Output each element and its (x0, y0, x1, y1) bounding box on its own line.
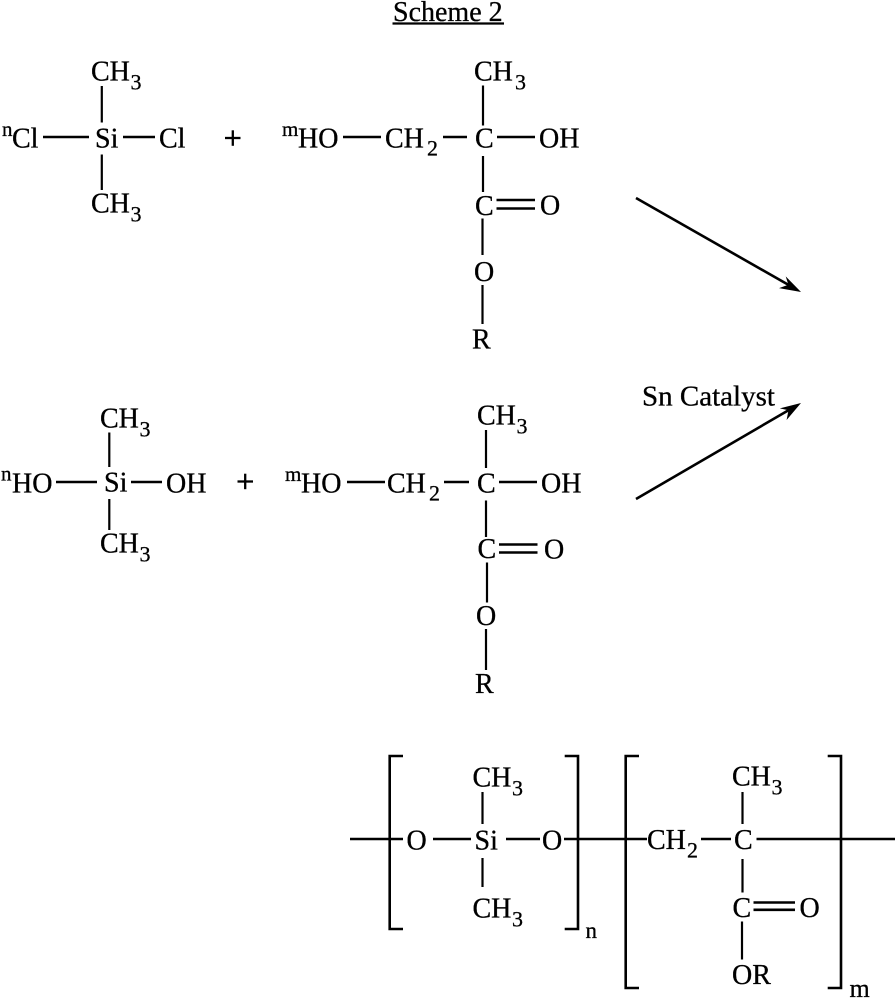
bracket right of n-block (565, 756, 578, 929)
svg-text:CH: CH (473, 894, 512, 925)
reaction arrow 1 (down-right) (636, 198, 801, 292)
label CH3 (above C, polymer) (732, 762, 783, 800)
svg-text:Si: Si (104, 468, 128, 499)
svg-text:OH: OH (541, 469, 581, 500)
bond CH2-C (row 2) (444, 481, 469, 483)
svg-text:O: O (474, 257, 494, 288)
svg-text:C: C (475, 124, 494, 155)
svg-text:OH: OH (166, 469, 206, 500)
bond C-C(carbonyl) vertical (polymer) (741, 859, 743, 893)
polymer backbone middle segment (564, 838, 647, 841)
bond Cl-Si (43, 136, 89, 138)
bracket left of m-block (626, 756, 639, 988)
svg-text:3: 3 (772, 775, 783, 800)
bond CH3-C vertical (482, 86, 484, 126)
svg-text:CH: CH (474, 57, 513, 88)
svg-text:m: m (850, 974, 870, 999)
title Scheme 2 (393, 0, 505, 28)
svg-text:CH: CH (732, 762, 771, 793)
svg-text:Cl: Cl (159, 124, 186, 155)
bond C-O vertical (481, 219, 483, 256)
bracket left of n-block (390, 756, 403, 929)
bond C-OH (497, 136, 535, 138)
svg-text:3: 3 (512, 907, 523, 932)
bond HO-CH2 (343, 136, 381, 138)
label CH3 (top of Si(OH)2Me2) (100, 404, 151, 442)
svg-text:C: C (733, 893, 752, 924)
svg-text:m: m (282, 117, 298, 141)
label CH3 (bottom of Si(OH)2Me2) (100, 529, 151, 567)
double bond C=O (497, 200, 536, 209)
svg-text:CH: CH (385, 124, 424, 155)
bond HO-CH2 (row 2) (347, 481, 385, 483)
bond CH2-C (443, 136, 467, 138)
label mHO (row 2) (285, 462, 341, 500)
bond Si-O (polymer) (506, 838, 540, 840)
svg-text:HO: HO (301, 469, 341, 500)
bond CH2-C (polymer) (701, 838, 731, 840)
bond C-OH (row 2) (499, 481, 537, 483)
svg-text:n: n (1, 462, 12, 486)
svg-text:HO: HO (12, 469, 52, 500)
label CH2 (polymer) (647, 825, 698, 863)
label CH3 (above Si, polymer) (473, 763, 524, 801)
label mHO (282, 117, 338, 155)
svg-text:C: C (734, 825, 753, 856)
svg-text:HO: HO (298, 124, 338, 155)
bond HO-Si (56, 481, 97, 483)
svg-text:3: 3 (517, 414, 528, 439)
svg-text:O: O (544, 535, 564, 566)
bond C-C(carbonyl) vertical (row 2) (485, 501, 487, 538)
svg-text:O: O (542, 826, 562, 857)
plus sign row 2 (238, 474, 254, 490)
label nCl (left) (2, 117, 39, 155)
label nHO (1, 462, 52, 500)
bond O-Si (polymer) (433, 838, 471, 840)
svg-text:CH: CH (91, 57, 130, 88)
svg-text:O: O (476, 601, 496, 632)
bond CH3-Si vertical (101, 86, 103, 123)
polymer backbone left segment (350, 838, 403, 841)
svg-text:CH: CH (477, 401, 516, 432)
svg-text:C: C (475, 191, 494, 222)
svg-text:R: R (472, 325, 491, 356)
svg-text:Si: Si (475, 826, 499, 857)
svg-text:C: C (478, 534, 497, 565)
svg-text:CH: CH (647, 825, 686, 856)
svg-text:Sn Catalyst: Sn Catalyst (642, 381, 775, 413)
bond Si-CH3 vertical (101, 155, 103, 191)
svg-text:3: 3 (512, 776, 523, 801)
svg-text:m: m (285, 462, 301, 486)
svg-text:Cl: Cl (12, 124, 39, 155)
svg-text:Si: Si (95, 124, 119, 155)
svg-text:O: O (407, 826, 427, 857)
bond Si-Cl (123, 136, 155, 138)
svg-text:3: 3 (515, 70, 526, 95)
label CH3 (bottom of SiCl2Me2) (91, 189, 142, 227)
label CH3 (above C, row 2) (477, 401, 528, 439)
bond CH3-Si vertical (polymer) (481, 792, 483, 824)
bracket right of m-block (828, 756, 841, 988)
svg-text:2: 2 (427, 136, 438, 161)
bond Si-CH3 vertical (108, 499, 110, 530)
reaction arrow 2 (up-right) (636, 403, 801, 499)
plus sign row 1 (225, 130, 241, 146)
double bond C=O (polymer) (754, 903, 796, 910)
svg-text:O: O (540, 191, 560, 222)
polymer backbone right segment (757, 838, 896, 841)
svg-text:OH: OH (539, 124, 579, 155)
label CH3 (below Si, polymer) (473, 894, 524, 932)
svg-text:CH: CH (387, 469, 426, 500)
bond CH3-Si vertical (108, 433, 110, 468)
bond Si-OH (131, 481, 162, 483)
svg-text:C: C (477, 469, 496, 500)
bond Si-CH3 vertical (polymer) (481, 858, 483, 887)
double bond C=O (row 2) (499, 545, 538, 553)
bond O-R vertical (row 2) (485, 629, 487, 670)
bond C-C(carbonyl) vertical (482, 156, 484, 192)
svg-text:O: O (800, 893, 820, 924)
bond C-OR vertical (polymer) (741, 922, 743, 960)
label CH3 (top of SiCl2Me2) (91, 57, 142, 95)
svg-text:CH: CH (100, 529, 139, 560)
svg-text:n: n (586, 918, 598, 943)
svg-text:CH: CH (91, 189, 130, 220)
svg-text:3: 3 (140, 417, 151, 442)
svg-text:OR: OR (732, 960, 771, 991)
bond CH3-C vertical (polymer m-block) (741, 792, 743, 824)
svg-text:CH: CH (100, 404, 139, 435)
svg-text:CH: CH (473, 763, 512, 794)
svg-text:2: 2 (687, 838, 698, 863)
label CH3 (above C) (474, 57, 526, 95)
bond C-O vertical (row 2) (486, 563, 488, 603)
svg-text:3: 3 (140, 542, 151, 567)
bond CH3-C vertical (row 2) (485, 430, 487, 468)
svg-text:R: R (475, 669, 494, 700)
label CH2 (row 2) (387, 469, 440, 506)
svg-text:2: 2 (429, 481, 440, 506)
svg-text:3: 3 (131, 202, 142, 227)
svg-text:3: 3 (131, 70, 142, 95)
bond O-R vertical (481, 285, 483, 324)
label CH2 (385, 124, 438, 161)
